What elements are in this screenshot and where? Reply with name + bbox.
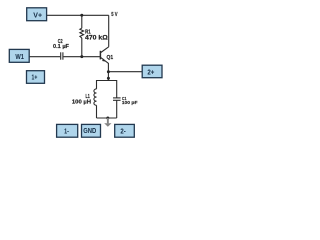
svg-text:Q1: Q1 (107, 55, 114, 61)
svg-text:100 pF: 100 pF (122, 100, 138, 106)
wire 5V rail down to Q1 collector (108, 15, 110, 47)
connector V+ (27, 8, 47, 21)
label 100 pF (122, 100, 138, 106)
svg-text:GND: GND (83, 128, 96, 135)
svg-text:V+: V+ (33, 13, 42, 20)
svg-text:470 kΩ: 470 kΩ (85, 35, 108, 42)
wire R1 bottom to base node (81, 38, 83, 57)
node tank top junction (107, 77, 110, 80)
wire Q1 emitter down (107, 63, 109, 81)
label C1 (122, 95, 127, 101)
wire L1 bottom (96, 105, 98, 118)
svg-text:0.1 µF: 0.1 µF (53, 44, 70, 50)
label 100 uH (72, 99, 91, 105)
svg-text:L1: L1 (86, 93, 91, 99)
wire R1 top stub (81, 15, 83, 28)
label 0.1 uF (53, 44, 70, 50)
label 470 kOhm (85, 35, 108, 42)
connector GND (82, 124, 101, 137)
svg-text:C2: C2 (58, 38, 63, 44)
label C2 (58, 38, 63, 44)
connector 1- (57, 124, 78, 137)
wire V+ to 5V rail (47, 14, 109, 16)
connector 2+ (142, 65, 162, 78)
svg-text:5 V: 5 V (111, 12, 118, 17)
wire tank bottom rail (97, 117, 117, 119)
connector 1+ (27, 71, 45, 84)
svg-text:2-: 2- (120, 129, 126, 136)
svg-text:C1: C1 (122, 95, 127, 101)
svg-text:1-: 1- (64, 129, 69, 136)
svg-text:W1: W1 (15, 54, 24, 61)
label R1 (85, 29, 91, 36)
resistor R1 (80, 28, 84, 38)
wire C1 bottom (116, 100, 118, 118)
svg-text:1+: 1+ (32, 75, 38, 82)
connector W1 (9, 49, 29, 62)
capacitor C2 (61, 52, 63, 59)
svg-text:100 µH: 100 µH (72, 99, 91, 105)
wire W1 to C2 (29, 56, 60, 58)
inductor L1 (94, 89, 97, 105)
ground (104, 118, 111, 127)
node emitter junction to 2+ (107, 70, 110, 73)
node junction R1 top at 5V rail (80, 14, 83, 17)
wire C2 to Q1 base (63, 56, 100, 58)
wire emitter node to 2+ (108, 71, 142, 73)
capacitor C1 (113, 98, 121, 100)
label 5 V (111, 12, 118, 17)
wire tank top rail (97, 81, 117, 98)
node base junction (80, 55, 83, 58)
node ground junction (106, 117, 109, 120)
svg-text:2+: 2+ (147, 69, 154, 76)
connector 2- (115, 124, 135, 137)
label Q1 (107, 55, 114, 61)
transistor Q1 (100, 47, 108, 64)
label L1 (86, 93, 91, 99)
